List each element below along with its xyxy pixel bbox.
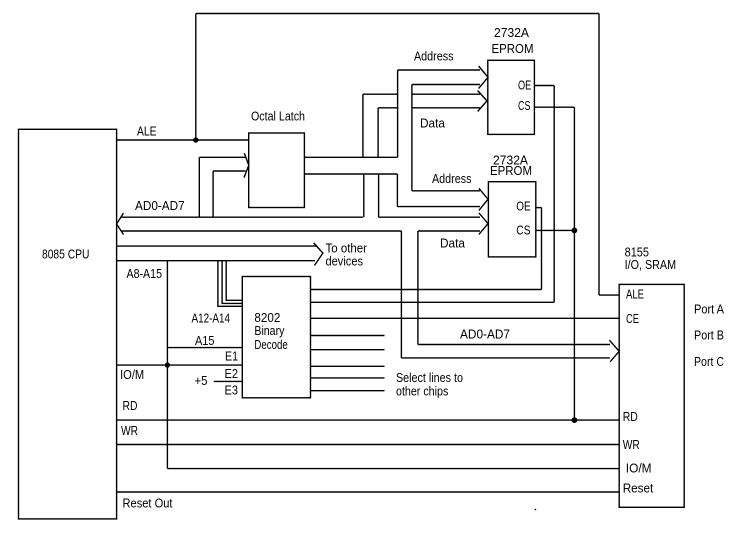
wire CS vertical [573, 107, 575, 420]
svg-text:other chips: other chips [396, 384, 449, 399]
svg-text:Address: Address [414, 48, 454, 63]
wire ALE into 8155 [599, 294, 619, 296]
CPU U1 8085 box [19, 129, 117, 519]
wire AD0-AD7 to 8155 line1 [418, 344, 610, 346]
node latch input bus arrowhead [244, 153, 249, 177]
wire AD0-AD7 bus line1 [122, 216, 363, 218]
wire CS U3 stub [534, 106, 574, 108]
node junction RD [572, 417, 578, 423]
svg-text:RD: RD [123, 398, 138, 413]
wire A12 drop [218, 261, 242, 307]
octal latch U2 box [249, 133, 305, 208]
svg-text:Decode: Decode [254, 337, 287, 352]
wire IO/M to E1 [117, 364, 243, 366]
node junction CS [572, 228, 578, 234]
wire EPROM U3 data line2 right [412, 107, 480, 109]
svg-text:IO/M: IO/M [626, 461, 652, 476]
wire A13 drop [222, 261, 242, 304]
svg-text:Data: Data [420, 115, 446, 130]
svg-text:RD: RD [623, 409, 638, 424]
svg-text:AD0-AD7: AD0-AD7 [135, 198, 185, 213]
wire AD0-AD7 bus line2 [122, 230, 402, 232]
node stray dot [535, 509, 537, 511]
wire decoder out2 to OE U3 [311, 301, 555, 303]
wire AD riser x379 lower [378, 174, 380, 217]
wire OE U4 stub [536, 207, 542, 209]
wire latch input2 vertical [212, 171, 214, 217]
svg-text:Binary: Binary [254, 323, 284, 338]
svg-text:E1: E1 [225, 348, 238, 363]
wire address riser x412 [411, 85, 413, 191]
node EPROM U4 address arrowhead [479, 188, 488, 210]
wire AD0-AD7 to 8155 line2 [401, 357, 610, 359]
wire to-other-devices top [117, 245, 317, 247]
wire CS U4 stub [536, 229, 575, 231]
wire decoder out8 [311, 390, 385, 392]
node to-other-devices arrowhead [314, 243, 323, 266]
node EPROM U3 data arrowhead [478, 91, 487, 112]
svg-text:devices: devices [326, 253, 364, 268]
wire ALE vertical riser [195, 14, 197, 141]
wire EPROM U4 data line2 [418, 230, 480, 232]
wire EPROM U4 data line1 [379, 216, 480, 218]
svg-text:Select lines to: Select lines to [396, 370, 463, 385]
wire AD riser x364 lower [363, 174, 365, 217]
svg-text:Address: Address [432, 171, 472, 186]
svg-text:2732A: 2732A [494, 25, 529, 40]
svg-text:CS: CS [518, 98, 531, 113]
svg-text:WR: WR [121, 423, 138, 438]
wire A8-A15 bus bottom [117, 260, 315, 262]
wire decoder out6 [311, 365, 385, 367]
wire AD bus drop x418 [417, 231, 419, 345]
wire RD CPU to 8155 [117, 419, 620, 421]
wire AD bus drop x401 [400, 231, 402, 358]
node EPROM U4 data arrowhead [479, 213, 488, 235]
wire ALE top rail [196, 13, 599, 15]
decoder U5 8202 box [242, 277, 310, 398]
svg-text:AD0-AD7: AD0-AD7 [460, 326, 510, 341]
svg-text:EPROM: EPROM [492, 41, 534, 56]
wire Reset Out to 8155 [117, 491, 620, 493]
wire EPROM U4 address line1 [412, 190, 480, 192]
wire data riser x378 upper [377, 108, 379, 158]
svg-text:8085 CPU: 8085 CPU [42, 247, 89, 262]
EPROM U3 2732A box [488, 60, 535, 134]
svg-text:EPROM: EPROM [490, 163, 532, 178]
svg-text:WR: WR [623, 437, 640, 452]
node AD0-AD7 CPU arrowhead [117, 213, 124, 235]
svg-text:OE: OE [516, 199, 531, 214]
wire EPROM U3 data line1 left [363, 93, 398, 95]
svg-text:Octal Latch: Octal Latch [251, 108, 305, 123]
wire latch input1 [199, 156, 245, 158]
svg-text:E3: E3 [225, 383, 239, 398]
svg-text:Port B: Port B [694, 327, 724, 342]
svg-text:+5: +5 [195, 373, 208, 388]
wire OE U3 vertical [553, 86, 555, 303]
wire latch input1 vertical [198, 157, 200, 217]
wire address drop to EPROM U4 [396, 174, 398, 207]
wire address riser to EPROM U3 [397, 70, 399, 157]
wire EPROM U3 data line1 right [412, 93, 480, 95]
svg-text:A15: A15 [195, 333, 215, 348]
wire ALE right drop [598, 14, 600, 296]
wire IO/M vertical x167 [166, 261, 168, 469]
svg-text:I/O, SRAM: I/O, SRAM [625, 257, 677, 272]
svg-text:E2: E2 [225, 366, 239, 381]
node junction ALE [193, 137, 198, 142]
wire IO/M to 8155 [167, 468, 619, 470]
svg-text:OE: OE [518, 77, 532, 92]
wire A14 drop [226, 261, 242, 301]
wire WR CPU to 8155 [117, 444, 620, 446]
node junction IO/M [165, 362, 170, 367]
svg-text:CS: CS [516, 223, 531, 238]
wire decoder out5 [311, 349, 385, 351]
wire OE U3 stub [534, 85, 554, 87]
wire +5 to E2 [214, 380, 243, 382]
wire EPROM U3 address line2 [412, 84, 480, 86]
svg-text:Reset Out: Reset Out [123, 495, 173, 510]
wire data riser x363 upper [362, 94, 364, 157]
wire ALE CPU to latch [117, 139, 249, 141]
wire OE U4 vertical [541, 208, 543, 290]
wire decoder out1 to OE U4 [311, 289, 542, 291]
svg-text:Reset: Reset [623, 480, 654, 495]
svg-text:A8-A15: A8-A15 [127, 266, 163, 281]
I/O+SRAM U6 8155 box [619, 284, 684, 507]
wire EPROM U3 data line2 left [378, 107, 398, 109]
node EPROM U3 address arrowhead [479, 66, 488, 89]
node 8155 AD bus arrowhead [609, 340, 619, 362]
svg-text:Data: Data [440, 235, 466, 250]
wire decoder out7 [311, 377, 385, 379]
svg-text:ALE: ALE [137, 124, 157, 139]
svg-text:ALE: ALE [626, 286, 644, 301]
wire latch input2 [213, 170, 245, 172]
svg-text:Port C: Port C [694, 354, 724, 369]
EPROM U4 2732A box [488, 182, 535, 257]
wire EPROM U3 address line1 [398, 69, 480, 71]
wire latch output2 [304, 173, 397, 175]
svg-text:IO/M: IO/M [120, 367, 144, 382]
wire decoder out3 CE to 8155 [311, 317, 620, 319]
wire EPROM U4 address line2 [397, 206, 480, 208]
svg-text:Port A: Port A [694, 301, 724, 316]
wire decoder out4 [311, 335, 385, 337]
svg-text:CE: CE [626, 311, 639, 326]
svg-text:A12-A14: A12-A14 [192, 310, 231, 325]
wire latch output1 [304, 156, 397, 158]
wire A15 into decoder [167, 347, 242, 349]
